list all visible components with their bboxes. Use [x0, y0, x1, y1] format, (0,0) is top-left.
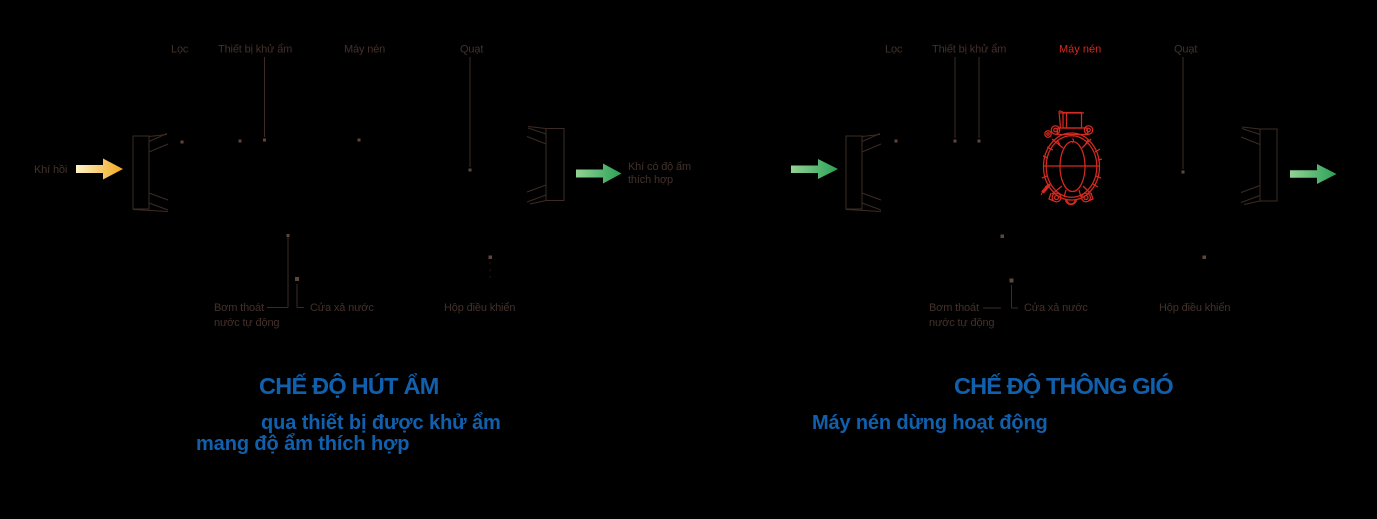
dot Hop dieu khien	[489, 256, 493, 260]
svg-text:Bơm thoát: Bơm thoát	[214, 302, 264, 314]
dot Bom thoat right	[1001, 235, 1005, 239]
dot Loc right	[895, 140, 898, 143]
svg-text:Cửa xả nước: Cửa xả nước	[310, 302, 374, 314]
svg-text:Lọc: Lọc	[171, 44, 189, 56]
svg-text:Thiết bị khử ẩm: Thiết bị khử ẩm	[218, 44, 292, 56]
dot Bom thoat	[287, 234, 290, 237]
dot Thiet bi a	[239, 140, 242, 143]
dash Hop dieu khien	[489, 262, 491, 278]
leader Bom thoat	[267, 236, 288, 308]
dot May nen	[358, 139, 361, 142]
vent left (inlet louver)	[133, 134, 168, 212]
svg-text:CHẾ ĐỘ HÚT ẨM: CHẾ ĐỘ HÚT ẨM	[259, 372, 439, 399]
svg-text:nước tự động: nước tự động	[214, 317, 279, 329]
svg-text:Lọc: Lọc	[885, 44, 903, 56]
leader Quat right	[1182, 57, 1184, 169]
arrow green outlet right	[1290, 164, 1337, 184]
leader Thiet bi right b	[978, 57, 980, 138]
svg-text:Khí hồi: Khí hồi	[34, 164, 67, 176]
dot Thiet bi b	[263, 139, 266, 142]
leader line Thiet bi	[264, 57, 266, 137]
svg-text:Máy nén: Máy nén	[1059, 44, 1101, 56]
square Cua xa nuoc	[295, 277, 299, 281]
vent left right-diagram	[846, 134, 881, 212]
svg-text:Quạt: Quạt	[460, 44, 483, 56]
dot Quat right	[1182, 171, 1185, 174]
svg-text:thích hợp: thích hợp	[628, 174, 673, 186]
leader Cua xa nuoc	[297, 284, 304, 308]
dot Hop dieu khien right	[1203, 256, 1207, 260]
vent right (outlet louver)	[527, 127, 564, 205]
svg-text:Quạt: Quạt	[1174, 44, 1197, 56]
svg-text:Khí có độ ẩm: Khí có độ ẩm	[628, 161, 691, 173]
svg-text:mang độ ẩm thích hợp: mang độ ẩm thích hợp	[196, 433, 409, 455]
square Cua xa right	[1010, 279, 1014, 283]
svg-text:Cửa xả nước: Cửa xả nước	[1024, 302, 1088, 314]
svg-text:Thiết bị khử ẩm: Thiết bị khử ẩm	[932, 44, 1006, 56]
arrow green outlet	[576, 164, 622, 184]
svg-text:Hộp điều khiển: Hộp điều khiển	[444, 302, 515, 314]
leader Bom thoat right	[983, 307, 1001, 309]
leader line Quat	[469, 57, 471, 167]
svg-text:qua thiết bị được khử ẩm: qua thiết bị được khử ẩm	[261, 412, 501, 434]
svg-text:Bơm thoát: Bơm thoát	[929, 302, 979, 314]
svg-text:Hộp điều khiển: Hộp điều khiển	[1159, 302, 1230, 314]
compressor May nen icon	[1041, 111, 1102, 205]
dot Loc	[181, 141, 184, 144]
vent right right-diagram	[1241, 127, 1277, 205]
dot Thiet bi right b	[978, 140, 981, 143]
leader Cua xa right	[1012, 285, 1019, 308]
arrow green inlet right	[791, 159, 838, 179]
dot Thiet bi right a	[954, 140, 957, 143]
dot Quat	[469, 169, 472, 172]
svg-text:Máy nén dừng hoạt động: Máy nén dừng hoạt động	[812, 412, 1048, 434]
svg-text:Máy nén: Máy nén	[344, 44, 385, 56]
svg-text:nước tự động: nước tự động	[929, 317, 994, 329]
arrow yellow inlet	[76, 159, 123, 180]
leader Thiet bi right a	[954, 57, 956, 138]
svg-text:CHẾ ĐỘ THÔNG GIÓ: CHẾ ĐỘ THÔNG GIÓ	[954, 372, 1173, 399]
